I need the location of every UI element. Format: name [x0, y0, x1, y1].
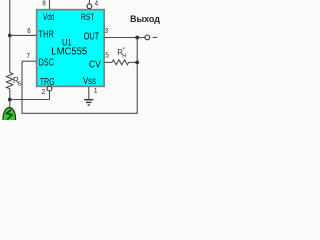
wire DSC pin 7 horizontal: [22, 60, 37, 62]
IC pin labels: [39, 12, 102, 88]
svg-text:2: 2: [42, 89, 46, 97]
wire THR pin 6: [10, 34, 37, 36]
svg-text:3: 3: [105, 28, 109, 36]
svg-text:8: 8: [42, 0, 46, 8]
node OUT junction: [135, 36, 139, 40]
svg-text:1: 1: [94, 88, 98, 96]
label RБ: [13, 76, 22, 87]
wire TRG pin 2 vertical: [49, 91, 51, 100]
label RН*: [117, 48, 126, 60]
svg-text:DSC: DSC: [39, 56, 55, 67]
svg-text:5: 5: [105, 52, 109, 60]
svg-text:Б: Б: [18, 82, 22, 88]
svg-text:OUT: OUT: [84, 31, 100, 42]
pin 4 terminal circle: [87, 4, 92, 9]
svg-text:LMC555: LMC555: [51, 46, 87, 57]
svg-text:7: 7: [27, 53, 31, 61]
wire Vdd pin 8: [49, 0, 51, 9]
svg-text:Выход: Выход: [130, 14, 160, 24]
svg-text:THR: THR: [39, 28, 54, 39]
wire CV pin 5 lead: [105, 61, 113, 63]
svg-text:4: 4: [95, 0, 99, 8]
svg-text:TRG: TRG: [40, 76, 55, 87]
generator source (green): [3, 107, 16, 130]
wire left bus lower (to source): [9, 89, 11, 108]
wire Vss pin 1: [88, 87, 90, 99]
wire RST pin 4: [88, 0, 90, 4]
wire DSC vertical: [21, 61, 23, 113]
svg-text:RST: RST: [81, 12, 94, 22]
wire TRG pin 2 horizontal: [10, 99, 50, 101]
pin 2 terminal circle: [47, 86, 52, 91]
node THR junction: [8, 34, 12, 38]
svg-text:CV: CV: [89, 59, 102, 70]
node CV junction: [135, 61, 139, 65]
svg-text:Vdd: Vdd: [43, 12, 54, 23]
node TRG junction: [8, 98, 12, 102]
op-amp U1 LMC555 IC body: [37, 10, 105, 87]
wire output stub: [153, 36, 158, 38]
resistor RН*: [112, 60, 129, 65]
ground: [84, 100, 93, 105]
background: [0, 0, 160, 120]
wire resistor to right bus: [129, 61, 137, 63]
wire left bus upper (Vdd-THR net): [9, 0, 11, 73]
svg-text:6: 6: [27, 28, 31, 36]
svg-text:Н: Н: [122, 54, 126, 60]
svg-text:Vss: Vss: [83, 75, 96, 86]
resistor RБ: [6, 73, 12, 89]
output terminal circle: [145, 35, 150, 40]
wire bottom rail: [22, 112, 138, 114]
wire right bus: [136, 38, 138, 114]
wire OUT pin 3: [105, 37, 145, 39]
